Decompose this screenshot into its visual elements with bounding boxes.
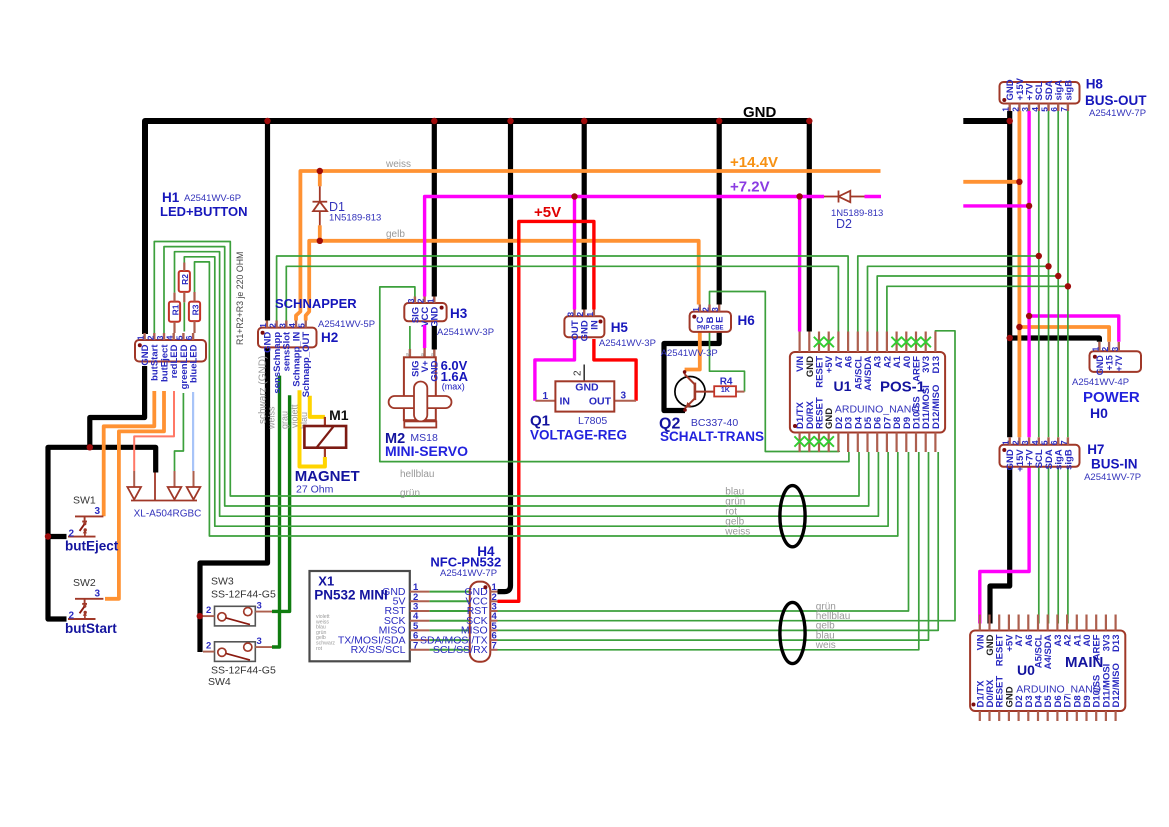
svg-text:sigB: sigB xyxy=(1063,80,1074,101)
wire U1 D2 to H6 base xyxy=(710,292,840,453)
svg-text:1: 1 xyxy=(1001,440,1011,445)
svg-text:grün: grün xyxy=(400,488,420,499)
wire gruen bundle U1 D5 to H1 butEject loop xyxy=(164,247,869,506)
arduino nano U0 MAIN xyxy=(970,631,1125,712)
svg-text:H6: H6 xyxy=(738,313,756,328)
resistor R3 xyxy=(189,302,200,322)
svg-text:A2541WV-5P: A2541WV-5P xyxy=(318,319,375,330)
wire H8 pin5 SDA vertical xyxy=(1048,111,1050,437)
svg-text:1: 1 xyxy=(1001,107,1011,112)
connector H2 SCHNAPPER xyxy=(258,328,317,348)
svg-text:weiss: weiss xyxy=(385,159,411,170)
svg-text:3: 3 xyxy=(1110,347,1120,352)
wire blueLED light blue xyxy=(192,392,194,471)
svg-text:(max): (max) xyxy=(442,382,465,392)
svg-text:H1: H1 xyxy=(162,190,180,205)
junction dots +7.2V xyxy=(571,193,577,199)
wire D1 anode stub xyxy=(318,225,322,241)
svg-text:R4: R4 xyxy=(720,377,733,388)
svg-text:D12/MISO: D12/MISO xyxy=(931,385,942,429)
svg-text:4: 4 xyxy=(1030,107,1040,112)
svg-text:6: 6 xyxy=(184,335,194,340)
svg-text:3: 3 xyxy=(257,636,262,647)
svg-text:5: 5 xyxy=(297,323,307,328)
svg-text:SW1: SW1 xyxy=(73,495,96,507)
wire H6 base green to R4 xyxy=(710,332,745,392)
svg-text:IN: IN xyxy=(589,320,600,330)
resistor R2 xyxy=(179,271,190,292)
svg-text:3: 3 xyxy=(277,323,287,328)
wire H7 pin7 to U0 A2 xyxy=(1067,467,1069,624)
svg-text:D13: D13 xyxy=(931,356,942,373)
module X1 PN532 MINI xyxy=(310,571,410,661)
wire gelb orange to H6 pin1 xyxy=(306,241,699,321)
wire switch ground rail xyxy=(48,447,156,619)
svg-text:2: 2 xyxy=(1100,347,1110,352)
wire H8 pin1 to H7 pin1 black xyxy=(1007,111,1012,437)
svg-text:PN532 MINI: PN532 MINI xyxy=(314,588,388,603)
svg-text:RX/SS/SCL: RX/SS/SCL xyxy=(351,644,406,656)
wire H8 pin7 sigB vertical xyxy=(1067,111,1069,437)
wire R2 bottom green xyxy=(183,302,185,331)
wire H5 OUT magenta to Q1 IN xyxy=(535,339,575,401)
wire black branch to POWER pin1 xyxy=(1010,338,1100,342)
connector H4 NFC-PN532 xyxy=(470,582,491,662)
wire +7V right stub xyxy=(963,204,1029,207)
svg-text:A2541WV-4P: A2541WV-4P xyxy=(1072,377,1129,388)
wire GND drop to H5 pin2 xyxy=(582,121,587,310)
wire H7 pin3 to U0 VIN magenta xyxy=(980,467,1029,624)
svg-text:violett: violett xyxy=(289,404,299,428)
wire GND bus right segment xyxy=(963,118,1012,124)
svg-text:rot: rot xyxy=(316,646,323,652)
svg-text:H3: H3 xyxy=(450,306,468,321)
svg-text:1: 1 xyxy=(136,335,146,340)
svg-text:grau: grau xyxy=(280,411,290,429)
wire sensSchnapp dark green to SW4 xyxy=(272,376,280,647)
svg-text:U0: U0 xyxy=(1017,662,1035,678)
wire H6 pin1 orange to Q2 collector xyxy=(685,332,700,370)
svg-text:SW4: SW4 xyxy=(208,676,231,688)
svg-text:BUS-OUT: BUS-OUT xyxy=(1085,93,1147,108)
svg-text:SS-12F44-G5: SS-12F44-G5 xyxy=(211,588,276,600)
wire H8 pin2 to H7 pin2 orange xyxy=(1018,111,1022,437)
svg-text:1: 1 xyxy=(691,307,701,312)
svg-text:XL-A504RGBC: XL-A504RGBC xyxy=(134,509,202,520)
wire +5V red net H5 pin1 to H4 VCC xyxy=(498,221,594,601)
wire H7 pin6 to U0 A3 xyxy=(1057,467,1059,624)
svg-text:butStart: butStart xyxy=(65,621,117,636)
svg-text:2: 2 xyxy=(701,307,711,312)
svg-text:A2541WV-7P: A2541WV-7P xyxy=(1084,472,1141,483)
svg-text:H0: H0 xyxy=(1090,405,1108,421)
svg-text:Schnapp_OUT: Schnapp_OUT xyxy=(301,332,312,398)
svg-text:+15: +15 xyxy=(1105,355,1115,370)
cable bundle marker 1 xyxy=(780,486,805,547)
svg-text:1K: 1K xyxy=(721,387,730,394)
svg-text:U1: U1 xyxy=(834,378,852,394)
svg-text:A2541WV-6P: A2541WV-6P xyxy=(184,193,241,204)
wire U1 A4/SDA to bus SDA xyxy=(868,266,1049,331)
svg-text:IN: IN xyxy=(560,396,571,408)
wire H7 pin1 to U0 GND xyxy=(990,467,1010,624)
svg-text:+5V: +5V xyxy=(534,204,561,221)
svg-text:1: 1 xyxy=(425,298,435,303)
switch SW3 SS-12F44-G5 xyxy=(215,606,256,626)
svg-text:2: 2 xyxy=(1010,440,1020,445)
svg-text:PNP CBE: PNP CBE xyxy=(697,326,724,332)
connector H8 BUS-OUT xyxy=(1000,82,1080,104)
wire H5 IN red to Q1 OUT xyxy=(594,339,636,401)
svg-text:+14.4V: +14.4V xyxy=(730,154,778,171)
svg-text:3: 3 xyxy=(95,588,101,599)
wire Q1 GND thin xyxy=(583,365,585,382)
svg-text:GND: GND xyxy=(430,307,441,328)
svg-text:SCHNAPPER: SCHNAPPER xyxy=(275,296,357,311)
wire gelb bundle U1 D7 to R2 xyxy=(184,257,888,526)
svg-text:3: 3 xyxy=(1020,107,1030,112)
svg-text:butEject: butEject xyxy=(65,538,119,553)
svg-text:R2: R2 xyxy=(180,274,190,285)
magnet M1 xyxy=(324,417,326,426)
servo M2 xyxy=(409,349,411,358)
LED XL-A504RGBC xyxy=(133,471,135,487)
wire butEject orange to SW2 xyxy=(105,391,164,599)
svg-text:5: 5 xyxy=(1040,440,1050,445)
svg-text:H8: H8 xyxy=(1086,77,1104,92)
svg-text:LED+BUTTON: LED+BUTTON xyxy=(160,204,248,219)
svg-text:H5: H5 xyxy=(611,320,629,335)
wire +15V right stub xyxy=(963,180,1019,184)
svg-text:A2541WV-7P: A2541WV-7P xyxy=(1089,108,1146,119)
svg-text:2: 2 xyxy=(1010,107,1020,112)
svg-text:POS-1: POS-1 xyxy=(880,379,925,396)
svg-text:3: 3 xyxy=(95,506,101,517)
svg-text:3: 3 xyxy=(257,601,262,612)
svg-text:3: 3 xyxy=(406,298,416,303)
wire greenLED green xyxy=(175,393,184,471)
svg-text:7: 7 xyxy=(1059,107,1069,112)
wire weiss bundle U1 D8 to R3 xyxy=(195,262,898,536)
svg-text:1: 1 xyxy=(543,391,549,402)
wire sensSlot dark green to SW3 xyxy=(272,395,290,611)
svg-text:D12/MISO: D12/MISO xyxy=(1111,663,1122,707)
svg-text:A2541WV-3P: A2541WV-3P xyxy=(661,348,718,359)
svg-text:A2541WV-3P: A2541WV-3P xyxy=(599,338,656,349)
svg-text:sigB: sigB xyxy=(1063,449,1074,470)
svg-text:R3: R3 xyxy=(190,304,200,315)
svg-text:7: 7 xyxy=(413,640,418,651)
wire sensSchnapp to U1 A6 xyxy=(277,256,849,332)
wire X1 to H4 links xyxy=(429,591,469,593)
svg-text:3: 3 xyxy=(1020,440,1030,445)
svg-text:X1: X1 xyxy=(318,574,334,589)
wire Schnapp_OUT yellow to M1 xyxy=(310,396,325,417)
connector H1 LED+BUTTON xyxy=(135,340,206,362)
svg-text:R1+R2+R3 je 220 OHM: R1+R2+R3 je 220 OHM xyxy=(235,252,245,345)
svg-text:+7.2V: +7.2V xyxy=(730,179,770,196)
wire H1 GND to switch rail xyxy=(90,366,145,447)
junction dots GND bus xyxy=(264,118,270,124)
svg-text:2: 2 xyxy=(145,335,155,340)
svg-text:hellblau: hellblau xyxy=(400,469,434,480)
wire U1 A2 to bus sigB xyxy=(887,286,1068,331)
svg-text:BUS-IN: BUS-IN xyxy=(1091,457,1138,472)
svg-text:2: 2 xyxy=(575,312,585,317)
wire sensSlot to U1 A7 xyxy=(286,266,838,331)
wire GND drop to H3 xyxy=(432,121,437,297)
svg-text:SW3: SW3 xyxy=(211,575,234,587)
svg-text:weiss: weiss xyxy=(724,526,750,537)
svg-text:4: 4 xyxy=(1030,440,1040,445)
svg-text:L7805: L7805 xyxy=(578,415,607,427)
wire butStart orange to SW1 xyxy=(104,391,155,516)
svg-text:GND: GND xyxy=(743,104,777,121)
wire orange branch to POWER pin2 xyxy=(1019,327,1109,342)
wire H4 SCK to U1 D13 xyxy=(498,331,956,621)
svg-text:D13: D13 xyxy=(1111,635,1122,652)
wire U1 D3 to H3 SIG xyxy=(380,287,849,462)
wire H4 MISO to U1 D12/MISO xyxy=(498,452,939,630)
svg-text:H2: H2 xyxy=(321,330,338,345)
svg-text:weis: weis xyxy=(815,640,836,651)
svg-text:1: 1 xyxy=(1090,347,1100,352)
wire U1 A5/SCL to bus SCL xyxy=(858,256,1039,332)
svg-text:7: 7 xyxy=(492,640,497,651)
svg-text:MAIN: MAIN xyxy=(1065,654,1103,671)
svg-text:SCL/SS/RX: SCL/SS/RX xyxy=(433,644,488,656)
svg-text:E: E xyxy=(715,317,726,323)
switch SW4 SS-12F44-G5 xyxy=(215,642,256,662)
wire redLED salmon xyxy=(134,391,174,471)
diode D1 xyxy=(319,186,321,201)
switch SW1 butEject xyxy=(75,515,103,517)
svg-text:R1: R1 xyxy=(170,304,180,315)
svg-text:M1: M1 xyxy=(329,407,349,423)
svg-text:MINI-SERVO: MINI-SERVO xyxy=(385,443,468,459)
svg-text:4: 4 xyxy=(287,323,297,328)
arduino nano U1 POS-1 xyxy=(790,352,945,433)
svg-text:GND: GND xyxy=(430,360,441,381)
svg-text:4: 4 xyxy=(165,335,175,340)
wire U1 VIN magenta drop xyxy=(798,197,801,332)
junction dots right column xyxy=(1016,179,1022,185)
svg-text:D2: D2 xyxy=(836,217,852,231)
svg-text:5: 5 xyxy=(1040,107,1050,112)
wire H5 pin3 magenta drop xyxy=(573,197,576,310)
svg-text:2: 2 xyxy=(416,298,426,303)
svg-text:SCHALT-TRANS: SCHALT-TRANS xyxy=(660,429,764,444)
svg-text:7: 7 xyxy=(1059,440,1069,445)
svg-text:+7V: +7V xyxy=(1114,355,1124,371)
svg-text:3: 3 xyxy=(621,391,627,402)
svg-text:OUT: OUT xyxy=(589,396,612,408)
svg-text:H7: H7 xyxy=(1087,442,1104,457)
wire H8 pin3 to H7 pin3 magenta xyxy=(1027,111,1030,437)
wire rot bundle U1 D6 to R1 xyxy=(175,252,879,517)
svg-text:1: 1 xyxy=(258,323,268,328)
svg-text:2: 2 xyxy=(206,641,211,652)
svg-text:A2541WV-7P: A2541WV-7P xyxy=(440,568,497,579)
wire H8 pin6 sigA vertical xyxy=(1057,111,1059,437)
svg-text:GND: GND xyxy=(1095,355,1105,376)
svg-text:5: 5 xyxy=(174,335,184,340)
wire blau bundle U1 D4 to H1 butStart loop xyxy=(154,242,859,497)
wire H7 pin4 to U0 A5/SCL xyxy=(1038,467,1040,624)
connector H6 xyxy=(690,312,731,332)
svg-text:ARDUINO_NANO: ARDUINO_NANO xyxy=(1016,683,1101,695)
wire GND drop to U1 GND xyxy=(807,121,812,332)
wire H8 pin4 SCL vertical xyxy=(1038,111,1040,437)
wire GND drop to H6 pin3 xyxy=(717,121,722,305)
svg-text:SS-12F44-G5: SS-12F44-G5 xyxy=(211,664,276,676)
diode D2 xyxy=(824,196,839,198)
wire H4 SCL/SS to U1 D10/SS xyxy=(498,452,919,650)
wire rail stub to SW1 pin2 xyxy=(48,534,67,539)
svg-text:VOLTAGE-REG: VOLTAGE-REG xyxy=(530,428,627,443)
GND bus top xyxy=(145,121,810,334)
wire H3 SIG below to servo xyxy=(409,326,411,349)
wire H4 RST to U1 D9 xyxy=(498,452,909,611)
wire D2 right magenta stub xyxy=(865,195,882,198)
wire D1 cathode stub xyxy=(318,171,322,186)
svg-text:3: 3 xyxy=(710,307,720,312)
connector H7 BUS-IN xyxy=(1000,445,1080,467)
svg-text:weiss: weiss xyxy=(267,406,277,430)
svg-text:6: 6 xyxy=(1049,107,1059,112)
svg-text:POWER: POWER xyxy=(1083,389,1140,406)
svg-text:3: 3 xyxy=(566,312,576,317)
wire Schnapp_IN yellow to M1 xyxy=(300,390,325,466)
svg-text:1: 1 xyxy=(585,312,595,317)
wire GND drop to H4 pin1 xyxy=(498,121,511,592)
connector H0 POWER xyxy=(1090,351,1142,372)
wire weiss +14.4V orange xyxy=(296,171,881,321)
svg-text:GND: GND xyxy=(575,382,599,394)
svg-text:2: 2 xyxy=(206,605,211,616)
wire H7 pin5 to U0 A4/SDA xyxy=(1048,467,1050,624)
svg-text:BC337-40: BC337-40 xyxy=(691,417,738,429)
svg-text:27 Ohm: 27 Ohm xyxy=(296,484,334,496)
svg-text:MAGNET: MAGNET xyxy=(295,468,360,485)
connector H3 xyxy=(404,303,446,321)
svg-text:SW2: SW2 xyxy=(73,577,96,589)
switch SW2 butStart xyxy=(75,598,103,600)
svg-text:6: 6 xyxy=(1049,440,1059,445)
wire GND drop to H2 / switch rail xyxy=(265,121,270,321)
wire H6 pin3 to Q2 emitter xyxy=(664,332,719,411)
svg-text:ARDUINO_NANO: ARDUINO_NANO xyxy=(835,404,920,416)
svg-text:1N5189-813: 1N5189-813 xyxy=(329,213,381,224)
resistor R4 1K xyxy=(736,391,745,393)
svg-text:gelb: gelb xyxy=(386,229,405,240)
voltage regulator Q1 L7805 xyxy=(535,400,555,402)
svg-text:blueLED: blueLED xyxy=(189,344,200,383)
svg-text:A2541WV-3P: A2541WV-3P xyxy=(437,327,494,338)
svg-text:2: 2 xyxy=(268,323,278,328)
resistor R1 xyxy=(169,302,180,322)
transistor Q2 xyxy=(675,377,705,407)
cable bundle marker 2 xyxy=(780,602,805,663)
wire U1 A3 to bus sigA xyxy=(877,276,1058,332)
connector H5 xyxy=(564,316,604,337)
wire +7.2V magenta rail xyxy=(425,197,824,297)
wire H4 SDA/MOSI to U1 D11/MOSI xyxy=(498,452,929,640)
svg-text:3: 3 xyxy=(155,335,165,340)
svg-text:2: 2 xyxy=(573,370,584,376)
wire magenta branch to POWER pin3 xyxy=(1029,316,1119,342)
junction dots switch rail xyxy=(87,444,93,450)
